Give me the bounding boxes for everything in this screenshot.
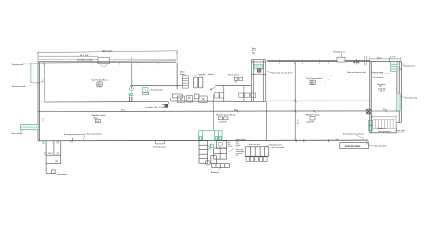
right wing dim line: [370, 57, 401, 62]
bottom right label box: [340, 143, 369, 149]
svg-text:Basement wall: Basement wall: [12, 85, 26, 88]
svg-text:105: 105: [311, 81, 314, 83]
svg-text:103: 103: [235, 82, 238, 84]
svg-text:New canopy: New canopy: [12, 133, 23, 135]
ticks bottom mid: [296, 139, 328, 142]
bottom squares row: [246, 157, 267, 162]
svg-text:Ramp dn: Ramp dn: [377, 128, 385, 130]
svg-text:EXISTING RAMP: EXISTING RAMP: [345, 145, 361, 148]
building top wall right portion: [267, 60, 370, 61]
svg-text:36'-1 3/4": 36'-1 3/4": [80, 55, 89, 57]
green flag: [208, 145, 211, 150]
fixtures row in core: [178, 94, 208, 102]
green vestibule: [199, 131, 222, 141]
bottom notch: [156, 141, 165, 144]
wing corridor line: [371, 110, 398, 112]
dimension line top tier 1: [37, 51, 178, 62]
svg-text:Roof Access: Roof Access: [333, 50, 346, 53]
green boxes wing wall: [368, 120, 372, 125]
callout right 1: [402, 63, 405, 65]
faint dots left of wing: [323, 75, 332, 83]
svg-text:and landing: and landing: [236, 151, 244, 153]
stair landing square: [257, 69, 261, 73]
svg-text:96'-1 1/2": 96'-1 1/2": [102, 50, 112, 53]
wide stepped structure: [245, 147, 269, 156]
lower note: [218, 167, 221, 170]
svg-text:Middle Portion: Middle Portion: [306, 113, 321, 116]
svg-text:7R@7: 7R@7: [48, 153, 53, 155]
svg-text:New mechanical unit: New mechanical unit: [347, 71, 366, 74]
svg-text:Existing ramp: Existing ramp: [405, 96, 418, 99]
wing green stair shaft: [397, 93, 400, 111]
inner wall line: [43, 63, 45, 102]
basement wall bump: [30, 64, 38, 83]
svg-text:860: 860: [311, 83, 314, 85]
stepped structure note: [266, 145, 270, 147]
wall tick marks: [44, 63, 159, 65]
dashed equipment line: [190, 74, 203, 76]
ticks right roof: [279, 59, 328, 64]
svg-text:Top Portion Area: Top Portion Area: [91, 78, 108, 81]
core small stair: [182, 76, 188, 88]
crawl space dashed: [371, 73, 391, 75]
circle fixture low: [205, 160, 210, 165]
svg-text:VIF: VIF: [236, 155, 239, 157]
svg-text:Existing stoop: Existing stoop: [153, 146, 166, 149]
svg-text:Existing wall: Existing wall: [12, 63, 24, 66]
svg-text:Existing door to remain: Existing door to remain: [343, 132, 363, 135]
fixtures above corridor: [143, 92, 256, 98]
column symbol: [366, 109, 371, 114]
small box near grid2: [143, 88, 148, 93]
roof access leader: [340, 53, 342, 57]
interior wall at grid 2: [131, 63, 133, 90]
svg-text:Exist. wall: Exist. wall: [396, 129, 405, 132]
corridor line B: [38, 110, 368, 113]
roof access hatch box: [337, 57, 345, 62]
right wing outline: [370, 62, 402, 133]
svg-text:New stair to roof level: New stair to roof level: [271, 72, 293, 75]
canopy line above roof: [38, 58, 176, 60]
wall dim tick: [37, 82, 41, 84]
svg-text:Crawl space: Crawl space: [373, 77, 385, 79]
wing tread band: [373, 120, 396, 129]
svg-text:Corridor 100 - 1,424 SF: Corridor 100 - 1,424 SF: [145, 106, 169, 109]
svg-text:Janitor: Janitor: [208, 73, 214, 76]
svg-text:Top Portion Area: Top Portion Area: [306, 77, 323, 80]
svg-text:106: 106: [96, 121, 99, 123]
building bottom edge: [38, 139, 368, 142]
green x wing: [398, 67, 401, 70]
left wall: [38, 61, 40, 141]
green tick bottom: [70, 140, 73, 143]
stair hatch green: [254, 64, 263, 69]
green dot ticks: [295, 140, 297, 142]
svg-text:Mech. Room: Mech. Room: [228, 75, 240, 77]
green door jamb: [129, 93, 133, 96]
svg-text:12'-6": 12'-6": [390, 57, 395, 59]
valve symbol: [354, 59, 360, 65]
svg-text:928: 928: [98, 86, 101, 88]
box above jog: [172, 94, 182, 98]
svg-text:2,430 SF: 2,430 SF: [219, 121, 228, 123]
svg-text:New guardrail: New guardrail: [378, 131, 391, 133]
svg-text:New handrail: New handrail: [374, 145, 386, 147]
svg-text:Unexcavated: Unexcavated: [372, 71, 384, 74]
svg-text:105: 105: [236, 144, 239, 146]
box callout: [368, 144, 373, 146]
svg-text:— Existing door: — Existing door: [149, 89, 163, 92]
dim double tick: [365, 56, 367, 66]
svg-text:Laundry: Laundry: [198, 74, 205, 76]
svg-text:New conc. walk: New conc. walk: [249, 144, 260, 146]
corridor line A right: [171, 100, 252, 102]
roof hatch tab: [98, 57, 110, 63]
toilet fixture: [218, 142, 223, 146]
green x at box: [366, 141, 369, 145]
tick on line A: [294, 99, 297, 102]
core front wall: [132, 84, 183, 86]
grid wall mid right: [294, 62, 296, 141]
stair down note: [55, 173, 57, 174]
jog door box: [165, 104, 168, 107]
callout right 2: [400, 96, 404, 98]
corridor line A left: [44, 101, 168, 104]
svg-text:New construction: New construction: [87, 133, 102, 136]
svg-text:Existing expansion joint: Existing expansion joint: [64, 133, 85, 136]
svg-text:to be removed: to be removed: [271, 146, 284, 149]
svg-text:W.C.: W.C.: [228, 142, 232, 144]
grid line upper extension: [131, 56, 133, 61]
corridor jog step: [162, 98, 171, 104]
svg-text:1,582 SF: 1,582 SF: [306, 121, 315, 123]
green x marks: [42, 141, 59, 163]
toilet block: [211, 141, 229, 168]
dim ticks on B: [236, 110, 315, 113]
svg-text:Areaway: Areaway: [211, 171, 219, 174]
corridor line A dashed right: [267, 100, 370, 102]
stair tower: [251, 60, 266, 141]
svg-text:104: 104: [228, 144, 231, 146]
wing stair box: [391, 62, 397, 72]
svg-text:Multi-Purpose Room: Multi-Purpose Room: [216, 113, 236, 116]
svg-text:Stair down: Stair down: [58, 173, 67, 176]
svg-text:58 SF: 58 SF: [236, 146, 240, 148]
partition wall above vestibule: [212, 95, 214, 130]
leader arrow: [210, 87, 216, 90]
dimension line tier 2: [38, 55, 99, 57]
wing lower dim: [372, 115, 396, 118]
leader arrow toilet: [229, 149, 233, 152]
svg-text:18'-0": 18'-0": [377, 57, 382, 59]
svg-text:8'-0: 8'-0: [336, 139, 339, 141]
svg-text:+ 48'-0": + 48'-0": [378, 91, 385, 93]
bottom-left stair: [46, 141, 61, 174]
building top wall left portion: [38, 61, 176, 63]
bottom-center left ladder stair: [199, 141, 208, 164]
svg-text:Existing stair: Existing stair: [270, 143, 282, 146]
svg-text:Existing stair: Existing stair: [404, 65, 416, 68]
room wall: [223, 85, 225, 101]
washer dryer boxes: [193, 77, 198, 88]
circle fixture high: [210, 144, 214, 148]
canopy left green: [21, 125, 39, 130]
green door symbol: [129, 85, 133, 92]
stair note leader: [267, 71, 271, 74]
core left wall: [176, 63, 178, 89]
svg-text:62 SF: 62 SF: [228, 146, 232, 148]
